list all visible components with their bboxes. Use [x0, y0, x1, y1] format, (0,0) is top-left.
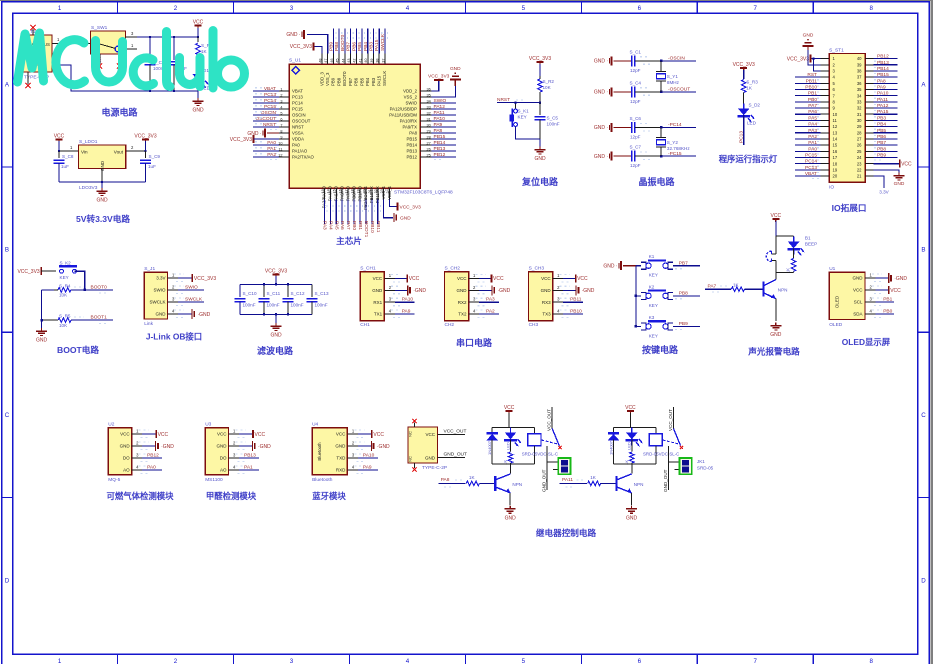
svg-text:-PC15: -PC15 [668, 151, 682, 157]
ground symbol of power circuit [197, 91, 199, 100]
key S_K2 boot button [60, 269, 64, 273]
svg-text:RST: RST [807, 72, 817, 78]
power port VCC_3V3 filter [273, 274, 280, 276]
svg-text:SDA: SDA [853, 312, 862, 317]
svg-text:PA2: PA2 [486, 309, 495, 315]
svg-text:TX2: TX2 [458, 312, 467, 317]
svg-text:29: 29 [857, 124, 862, 129]
svg-text:PA9: PA9 [434, 122, 443, 128]
svg-text:VDD_2: VDD_2 [403, 89, 417, 94]
header S_CH1 serial port box [360, 272, 384, 321]
svg-text:PA8: PA8 [409, 131, 417, 136]
svg-text:LDO3V3: LDO3V3 [79, 185, 98, 191]
svg-text:S_C1: S_C1 [630, 49, 642, 54]
capacitor S_C2 100nF [149, 36, 151, 38]
svg-text:PB14: PB14 [406, 143, 417, 148]
svg-text:PB4: PB4 [363, 42, 369, 51]
svg-text:VSS_3: VSS_3 [325, 72, 330, 86]
svg-text:PB1: PB1 [808, 91, 817, 97]
svg-text:PA10: PA10 [877, 91, 889, 97]
svg-text:PB13: PB13 [434, 146, 446, 152]
svg-text:3.3V: 3.3V [879, 190, 889, 195]
svg-text:VCC_OUT: VCC_OUT [547, 409, 552, 431]
svg-text:PB3: PB3 [368, 42, 374, 51]
net PB11 at S_CH3 pin 3 [563, 301, 583, 303]
net PA7 base wire with 1K resistor [705, 288, 731, 290]
key K2 [635, 295, 637, 297]
svg-text:39: 39 [857, 62, 862, 67]
wire S_C4 to net OSCOUT [635, 91, 661, 93]
svg-text:DO: DO [123, 456, 130, 461]
relay LED series resistor 1K [510, 439, 512, 451]
svg-text:PA10: PA10 [434, 116, 446, 122]
svg-text:PB13: PB13 [877, 60, 889, 66]
svg-text:TX1: TX1 [374, 312, 383, 317]
power port VCC for LDO input [56, 139, 63, 141]
svg-text:AO: AO [220, 468, 227, 473]
svg-text:PC13: PC13 [805, 165, 817, 171]
svg-text:4: 4 [406, 658, 410, 664]
svg-text:PC13: PC13 [292, 95, 303, 100]
svg-text:PB6: PB6 [877, 134, 886, 140]
svg-text:PB7: PB7 [877, 140, 886, 146]
svg-text:1: 1 [58, 658, 62, 664]
svg-text:1uF: 1uF [61, 164, 69, 169]
svg-text:VCC_3V3: VCC_3V3 [17, 269, 39, 275]
svg-text:PA3: PA3 [321, 221, 327, 230]
svg-text:VCC: VCC [504, 405, 515, 411]
net GND_OUT wire [438, 457, 466, 459]
svg-text:·GND: ·GND [258, 444, 271, 450]
svg-text:SWIO: SWIO [406, 101, 418, 106]
alarm LED branch [793, 236, 795, 242]
svg-text:LED: LED [747, 121, 757, 126]
svg-text:S_CH1: S_CH1 [360, 266, 376, 272]
net PA2 at S_CH2 pin 4 [479, 313, 499, 315]
svg-text:S_C8: S_C8 [62, 154, 74, 159]
svg-text:GND: GND [853, 276, 864, 281]
svg-text:PB9: PB9 [877, 152, 886, 158]
LED D1 [197, 69, 199, 74]
svg-text:·GND: ·GND [198, 312, 211, 318]
power port VCC relay driver [627, 410, 634, 412]
svg-text:MQ-5: MQ-5 [108, 477, 120, 483]
bottom net label wires of U1 [323, 200, 325, 224]
key K1 [636, 265, 641, 267]
svg-text:可燃气体检测模块: 可燃气体检测模块 [107, 491, 175, 501]
svg-text:PA11: PA11 [434, 110, 445, 116]
module U1 OLED box [829, 272, 865, 319]
svg-text:1N4007: 1N4007 [608, 440, 613, 455]
svg-text:PB7: PB7 [348, 77, 353, 86]
svg-text:SWCLK: SWCLK [185, 297, 203, 303]
svg-text:NPN: NPN [512, 482, 522, 487]
svg-text:PA4: PA4 [327, 221, 333, 230]
svg-text:S_R2: S_R2 [543, 79, 555, 84]
svg-text:PB11: PB11 [570, 297, 582, 303]
ground symbol boot circuit [41, 320, 43, 330]
svg-text:100nF: 100nF [315, 303, 328, 308]
ground flag at U4 pin 2 [358, 445, 372, 447]
svg-text:VCC_3V3: VCC_3V3 [529, 56, 551, 62]
power port VCC alarm [772, 218, 779, 220]
svg-text:CH1: CH1 [360, 322, 370, 328]
svg-text:VCC_3V3: VCC_3V3 [733, 62, 755, 68]
svg-text:VCC: VCC [577, 276, 588, 282]
transistor NPN relay driver [615, 476, 617, 491]
svg-text:GND_OUT: GND_OUT [542, 469, 547, 492]
svg-text:PB10: PB10 [805, 85, 817, 91]
svg-text:VCC_3V3: VCC_3V3 [230, 137, 252, 143]
svg-text:10K: 10K [59, 323, 68, 328]
svg-text:SRD-05VDC-SL-C: SRD-05VDC-SL-C [522, 451, 558, 456]
net PB0 at OLED pin 4 [876, 313, 895, 315]
svg-text:SWIO: SWIO [185, 285, 198, 291]
svg-text:PB8: PB8 [679, 291, 688, 297]
svg-text:PB7: PB7 [346, 42, 352, 51]
svg-text:40: 40 [857, 56, 862, 61]
svg-text:S_R4: S_R4 [59, 283, 71, 288]
ST1 left pin stubs [821, 58, 830, 60]
svg-text:VCC: VCC [493, 276, 504, 282]
svg-text:PC14: PC14 [292, 101, 303, 106]
net PA1 at U3 pin 4 [239, 469, 259, 471]
net PB13 at U3 pin 3 [239, 457, 259, 459]
svg-text:STM32F103C8T6_LQFP48: STM32F103C8T6_LQFP48 [394, 190, 453, 196]
svg-text:Link: Link [144, 321, 153, 327]
ST1 left net labels [795, 76, 821, 78]
power flag VCC_3V3 at ST1 pin 1 [811, 58, 821, 60]
svg-text:PA8: PA8 [434, 128, 443, 134]
svg-text:Bluetooth: Bluetooth [312, 477, 333, 483]
svg-text:24: 24 [857, 155, 862, 160]
svg-text:GND: GND [770, 332, 782, 338]
net VCC_OUT wire [438, 433, 466, 435]
svg-text:PB0: PB0 [808, 97, 817, 103]
svg-text:TYPE-C-2P: TYPE-C-2P [422, 465, 447, 471]
svg-text:蓝牙模块: 蓝牙模块 [312, 491, 346, 501]
U1 left pin stubs [279, 90, 289, 92]
TYPE-C-2P no-connect stubs [414, 423, 416, 428]
svg-text:27: 27 [857, 137, 862, 142]
svg-text:Vout: Vout [114, 150, 124, 155]
svg-text:8MHz: 8MHz [667, 80, 680, 85]
svg-text:OSCOUT: OSCOUT [292, 119, 311, 124]
crystal S_Y1 8MHz [660, 60, 662, 62]
svg-text:PA10/RX: PA10/RX [400, 119, 417, 124]
svg-text:VCC: VCC [217, 432, 227, 437]
capacitor S_C6 12pF [631, 122, 633, 133]
svg-text:VCC: VCC [373, 432, 384, 438]
ground at U1 pin VSS_2 [432, 85, 456, 97]
svg-text:KEY: KEY [60, 275, 69, 280]
svg-text:VCC_3V3: VCC_3V3 [194, 276, 216, 282]
LED S_D2 indicator [743, 104, 745, 109]
net PB12 at U2 pin 3 [142, 457, 162, 459]
base resistor 1K [466, 481, 479, 486]
svg-text:-OSCIN: -OSCIN [668, 56, 685, 62]
svg-text:8: 8 [869, 5, 873, 12]
ground above ST1 for pin 2 [808, 49, 821, 65]
svg-text:PC14: PC14 [805, 159, 817, 165]
svg-text:PA12/USB/DP: PA12/USB/DP [390, 107, 418, 112]
net PA9 at S_CH1 pin 4 [395, 313, 415, 315]
svg-text:S_K1: S_K1 [518, 109, 530, 114]
power flag VCC at U2 pin 1 [142, 433, 156, 435]
svg-text:IO拓展口: IO拓展口 [832, 202, 867, 213]
svg-text:B: B [5, 247, 9, 254]
header S_CH3 serial port box [529, 272, 553, 321]
svg-text:6: 6 [638, 658, 642, 664]
svg-text:U4: U4 [312, 422, 318, 428]
svg-text:B: B [921, 247, 925, 254]
ST1 right net labels [874, 58, 898, 60]
SW1 unused bottom pins with no-ERC marks [99, 54, 101, 64]
svg-text:VCC: VCC [425, 432, 435, 437]
capacitor S_C4 12pF [631, 86, 633, 97]
power flag VCC at U3 pin 1 [239, 433, 253, 435]
svg-text:OLED显示屏: OLED显示屏 [842, 337, 891, 347]
svg-text:GND: GND [803, 33, 814, 39]
svg-text:GND_OUT: GND_OUT [663, 469, 668, 492]
svg-text:CH2: CH2 [445, 322, 455, 328]
switch SW1 box [91, 31, 126, 54]
svg-text:JK1: JK1 [697, 459, 705, 464]
svg-text:7: 7 [754, 5, 758, 12]
svg-text:VDD_3: VDD_3 [319, 72, 324, 86]
svg-text:KEY: KEY [518, 115, 527, 120]
net SWCLK wire at J1 pin 3 [178, 301, 204, 303]
capacitor S_C11 100nF (filter) [263, 284, 265, 297]
svg-text:S_C5: S_C5 [547, 116, 559, 121]
svg-text:18: 18 [833, 161, 838, 166]
top net label wires of U1 [332, 29, 334, 54]
MCUclub turquoise watermark [18, 33, 44, 82]
svg-text:GND ·: GND · [594, 125, 609, 131]
ground symbol reset circuit [539, 139, 541, 148]
MCU U1 STM32F103C8T6 body [289, 64, 420, 188]
svg-text:PB10: PB10 [369, 221, 375, 233]
filter bottom rail [240, 313, 312, 315]
capacitor C3 1uF [173, 36, 175, 38]
buzzer B1 BEEP [775, 236, 777, 254]
svg-text:PA11/USB/DM: PA11/USB/DM [389, 113, 417, 118]
svg-text:10K: 10K [59, 293, 68, 298]
svg-text:K3: K3 [649, 315, 655, 320]
net PB9 wire for key K3 [673, 325, 700, 327]
svg-text:12pF: 12pF [630, 134, 641, 139]
svg-text:IO: IO [829, 185, 834, 191]
resistor S_R5 10K on BOOT1 [42, 319, 58, 321]
svg-text:PB10: PB10 [570, 309, 582, 315]
svg-text:5: 5 [522, 5, 526, 12]
alarm bottom rail [776, 272, 794, 274]
connector T1 TYPE-C-2P (power input) [22, 35, 52, 72]
svg-text:PA6: PA6 [808, 109, 817, 115]
resistor S_R1 1K [197, 36, 199, 38]
svg-text:GND: GND [894, 181, 905, 187]
svg-text:12pF: 12pF [630, 163, 641, 168]
svg-text:PB11: PB11 [375, 221, 381, 233]
svg-text:C: C [921, 412, 926, 419]
svg-text:S_C12: S_C12 [291, 291, 305, 296]
relay coil box SRD-05VDC-SL-C [655, 428, 657, 434]
svg-text:声光报警电路: 声光报警电路 [747, 346, 800, 357]
svg-text:NPN: NPN [778, 288, 788, 293]
svg-text:VCC: VCC [541, 276, 551, 281]
transistor Q1 NPN alarm driver [775, 273, 777, 280]
svg-text:·GND: ·GND [582, 288, 595, 294]
svg-text:S_C11: S_C11 [267, 291, 281, 296]
relay switch contact with VCC_OUT pole [673, 407, 675, 429]
svg-text:PA15: PA15 [374, 39, 380, 51]
J1 pin stubs and numbers [168, 277, 178, 279]
power port VCC_3V3 indicator [740, 67, 747, 69]
svg-text:NRST: NRST [263, 122, 276, 128]
relay LED series resistor 1K [631, 439, 633, 451]
svg-text:32: 32 [857, 106, 862, 111]
svg-text:PA2: PA2 [267, 152, 276, 158]
svg-text:S_Y1: S_Y1 [667, 74, 679, 79]
alarm top rail [776, 235, 794, 237]
svg-text:PA2/TX/AO: PA2/TX/AO [292, 155, 315, 160]
svg-text:OSCIN: OSCIN [292, 113, 306, 118]
svg-text:PB5: PB5 [357, 42, 363, 51]
svg-text:VCC: VCC [771, 213, 782, 219]
svg-text:DO: DO [220, 456, 227, 461]
svg-text:K2: K2 [649, 284, 655, 289]
svg-text:复位电路: 复位电路 [521, 176, 559, 187]
net PA10 at S_CH1 pin 3 [395, 301, 415, 303]
svg-text:PB13: PB13 [406, 149, 417, 154]
svg-text:MS1100: MS1100 [205, 477, 223, 483]
net PA8 base wire [438, 482, 465, 484]
svg-text:VCC: VCC [890, 288, 901, 294]
svg-text:OSCOUT: OSCOUT [255, 116, 276, 122]
power flag VCC_3V3 at U1 pin VDD_2 [432, 81, 439, 91]
left net label wires of U1 [253, 90, 279, 92]
svg-text:PA9: PA9 [363, 465, 372, 471]
svg-text:OLED: OLED [835, 295, 840, 308]
svg-text:SRD-05: SRD-05 [697, 466, 714, 471]
svg-text:GND: GND [450, 66, 461, 72]
svg-text:4: 4 [406, 5, 410, 12]
power flag VCC at ST1 pin 23 [874, 163, 900, 165]
svg-text:PA1: PA1 [808, 140, 817, 146]
svg-text:1uF: 1uF [148, 164, 156, 169]
wire to net PC13 vertical label [743, 115, 745, 145]
svg-text:B1: B1 [805, 236, 811, 241]
left rail of boot circuit [41, 290, 43, 320]
svg-text:AO: AO [123, 468, 130, 473]
svg-text:VCC_3V3: VCC_3V3 [787, 56, 809, 62]
svg-text:PA9: PA9 [877, 85, 886, 91]
capacitor S_C1 12pF [631, 55, 633, 66]
svg-text:PC14: PC14 [264, 98, 276, 104]
svg-text:PC15: PC15 [292, 107, 303, 112]
svg-text:PA11: PA11 [562, 477, 573, 483]
svg-text:VCC_3V3: VCC_3V3 [134, 134, 156, 140]
svg-text:PB6: PB6 [351, 42, 357, 51]
svg-text:LED: LED [627, 442, 632, 450]
key K3 [635, 325, 637, 327]
svg-text:1N4007: 1N4007 [487, 440, 492, 455]
svg-text:100nF: 100nF [547, 122, 560, 127]
svg-text:·GND: ·GND [498, 288, 511, 294]
svg-text:NPN: NPN [634, 482, 644, 487]
svg-text:VBAT: VBAT [292, 89, 303, 94]
svg-text:PA5: PA5 [808, 115, 817, 121]
svg-text:1K: 1K [469, 475, 476, 480]
right net label wires of U1 [432, 102, 457, 104]
svg-text:VCC: VCC [901, 162, 912, 168]
svg-text:GND ·: GND · [603, 264, 618, 270]
svg-text:PC15: PC15 [264, 104, 276, 110]
svg-text:PA1: PA1 [267, 146, 276, 152]
svg-text:VSSA: VSSA [292, 131, 304, 136]
ground flag at U1 pin 47 VSS_3 [307, 34, 328, 53]
svg-text:GND: GND [96, 198, 108, 204]
net PB1 at OLED pin 3 [876, 301, 895, 303]
svg-text:PB12: PB12 [406, 155, 417, 160]
svg-text:GND: GND [335, 444, 346, 449]
svg-text:PA12: PA12 [877, 103, 889, 109]
svg-text:GND: GND [270, 333, 282, 339]
svg-text:SWCLK: SWCLK [149, 300, 165, 305]
svg-text:GND: GND [36, 338, 48, 344]
ST1 pin1-pin3 tie wire [814, 59, 821, 71]
svg-text:按键电路: 按键电路 [642, 344, 679, 355]
capacitor S_C10 100nF (filter) [239, 284, 241, 297]
svg-text:1K: 1K [733, 283, 740, 288]
relay indicator LED [510, 428, 512, 433]
ground flag at S_CH3 pin 2 [563, 289, 576, 291]
svg-text:D: D [5, 577, 10, 584]
svg-text:-PC14: -PC14 [668, 122, 682, 128]
svg-text:程序运行指示灯: 程序运行指示灯 [719, 154, 778, 164]
net PA10 at U4 pin 3 [358, 457, 378, 459]
power port VCC (5V rail) [195, 25, 202, 27]
svg-text:SWCLK: SWCLK [382, 71, 387, 86]
svg-text:继电器控制电路: 继电器控制电路 [536, 527, 597, 538]
svg-text:PC13: PC13 [264, 92, 276, 98]
net SWIO wire at J1 pin 2 [178, 289, 204, 291]
LDO regulator S_LDO1 box [78, 145, 125, 169]
connector TYPE-C-2P output [408, 427, 438, 463]
svg-text:GND_OUT: GND_OUT [444, 452, 468, 458]
svg-text:VCC: VCC [409, 276, 420, 282]
svg-text:10K: 10K [543, 85, 552, 90]
svg-text:VCC: VCC [120, 432, 130, 437]
ground flag at J1 pin 4 [178, 313, 192, 315]
svg-text:S_Y2: S_Y2 [667, 140, 679, 145]
relay switch contact with VCC_OUT pole [551, 407, 553, 429]
svg-text:22: 22 [857, 167, 862, 172]
svg-text:PB9: PB9 [331, 77, 336, 86]
svg-text:U3: U3 [205, 422, 211, 428]
relay bottom rail [492, 463, 534, 465]
svg-text:BOOT0: BOOT0 [91, 284, 108, 290]
flyback diode 1N4007 [613, 428, 615, 433]
svg-text:主芯片: 主芯片 [336, 235, 362, 246]
terminal block green connector [546, 446, 548, 490]
svg-text:·GND: ·GND [377, 444, 390, 450]
filter top rail [240, 283, 312, 285]
svg-text:PB8: PB8 [334, 42, 340, 51]
svg-text:30: 30 [857, 118, 862, 123]
svg-text:35: 35 [857, 87, 862, 92]
flyback diode 1N4007 [491, 428, 493, 433]
